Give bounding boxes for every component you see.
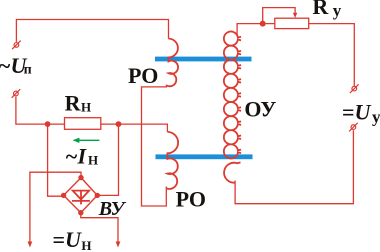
svg-text:у: у <box>372 108 380 127</box>
winding РО upper <box>166 39 178 87</box>
junction dot bridge bottom vertex <box>78 210 83 215</box>
svg-text:Н: Н <box>81 99 91 114</box>
svg-text:Н: Н <box>88 153 98 168</box>
svg-text:п: п <box>24 63 32 78</box>
wire: RУ right to upper right terminal <box>309 24 355 86</box>
core (blue bar) upper <box>155 57 252 62</box>
svg-text:ВУ: ВУ <box>98 198 127 220</box>
junction dot bridge left vertex <box>61 193 66 198</box>
svg-text:=U: =U <box>53 227 83 252</box>
wire: step connecting PO upper bottom to PO lower bottom <box>142 85 167 206</box>
junction dot bridge right vertex <box>95 193 100 198</box>
svg-text:=U: =U <box>342 100 372 125</box>
junction dot RУ tap <box>260 21 266 27</box>
wire: RН right side to PO lower top (crossover at x=141.5) <box>101 124 168 132</box>
arrow right output <box>116 242 121 248</box>
junction dot left of RН <box>45 121 51 127</box>
wire top: from terminal ~Uп up, across, down to PO upper <box>16 20 168 42</box>
arrow wiper (points down into resistor) <box>293 13 297 18</box>
svg-text:у: у <box>333 1 342 20</box>
svg-text:~I: ~I <box>65 144 88 169</box>
core (blue bar) lower <box>156 154 253 159</box>
svg-text:ОУ: ОУ <box>244 96 276 121</box>
arrow ~Iн (green current arrow) <box>73 138 100 143</box>
svg-text:РО: РО <box>128 63 158 88</box>
terminal lower-left (~Uп -) <box>12 89 21 98</box>
junction dot right of RН <box>116 121 122 127</box>
svg-text:РО: РО <box>176 186 206 211</box>
wire: OУ top to RУ left, with tap junction <box>237 24 275 36</box>
svg-text:R: R <box>312 0 329 19</box>
resistor РУ <box>275 18 309 28</box>
bridge rectifier ВУ (diamond) <box>64 178 98 213</box>
svg-text:Н: Н <box>81 238 91 252</box>
wire: lower right terminal down, across, up to ОУ bottom <box>235 130 353 203</box>
junction dot bridge top vertex <box>78 175 83 180</box>
terminal upper-right (=Uу +) <box>350 84 359 93</box>
diode symbol inside ВУ <box>72 190 90 205</box>
terminal lower-right (=Uу -) <box>349 123 358 132</box>
wire: terminal to RН left side <box>16 97 65 124</box>
wire: DC- from bridge bottom vertex to right output arrow <box>81 213 118 243</box>
wire: AC left — from left dot down to bridge left vertex <box>48 124 64 196</box>
winding РО lower <box>166 132 178 189</box>
resistor RН <box>65 118 101 130</box>
wire: AC right — from right dot down to bridge right vertex <box>97 124 118 195</box>
winding ОУ <box>224 32 241 183</box>
terminal upper-left (~Uп +) <box>12 41 21 50</box>
arrow left output <box>28 242 33 248</box>
wire: DC+ from bridge top vertex to left output arrow <box>30 172 81 242</box>
wiper wire of RУ with arrow <box>263 8 295 24</box>
svg-text:R: R <box>65 90 82 115</box>
